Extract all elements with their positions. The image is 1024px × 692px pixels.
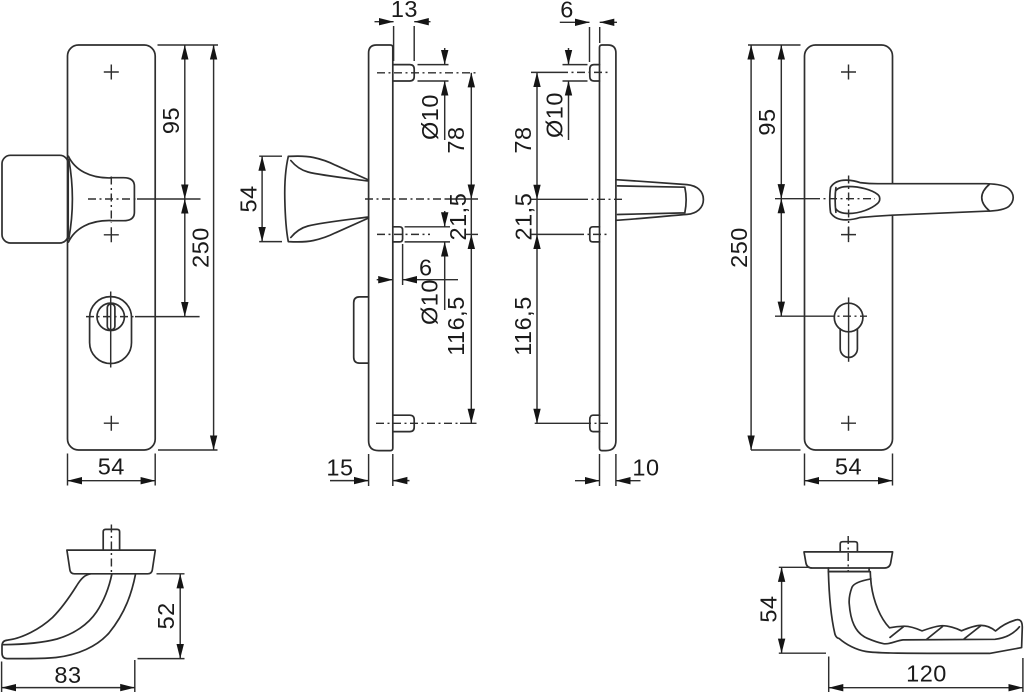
dimension 116,5 F2 (470, 234, 472, 423)
centerline bottom boss F2 (376, 422, 460, 424)
spindle boss middle F3 (590, 227, 600, 242)
svg-text:250: 250 (726, 227, 752, 268)
tick handle height F3 (531, 198, 581, 200)
svg-text:120: 120 (906, 661, 947, 687)
svg-text:6: 6 (560, 0, 574, 23)
extension lines boss diameter F2 (418, 65, 449, 81)
extension lines 6 F3 (590, 27, 600, 62)
lever centerline horizontal dash F4 (812, 198, 875, 200)
extension lines 54 F6 (779, 567, 826, 653)
knob neck top F1 (68, 156, 110, 178)
keyhole vertical centerline F4 (848, 297, 850, 361)
centerline middle boss F3 (576, 233, 609, 235)
cylinder cover side view F2 (354, 297, 369, 363)
knob neck bottom F1 (68, 220, 110, 242)
extension lines 120 F6 (829, 657, 1023, 692)
dimension knob-to-cylinder F1 (184, 199, 186, 317)
dimension 21,5 shaft F3 (536, 199, 538, 234)
dimension 250 F4 (750, 45, 752, 450)
lever crease F6 (849, 579, 1019, 644)
tick middle boss F3 (531, 233, 577, 235)
extension lines 13 F2 (394, 26, 415, 61)
svg-text:Ø10: Ø10 (417, 279, 443, 325)
dimension 13 arrows F2 (375, 21, 394, 23)
extension lines boss diameter F3 (563, 65, 588, 81)
spindle centerline F6 (847, 536, 849, 573)
keyhole horizontal centerline solid F4 (775, 315, 826, 317)
dimension arrows diameter F3 (568, 48, 570, 65)
svg-text:15: 15 (326, 455, 353, 481)
lever neck egg F4 (836, 187, 880, 214)
svg-text:21,5: 21,5 (511, 193, 537, 241)
lever collar F6 (828, 568, 869, 572)
knob grip F1 (2, 155, 68, 243)
spindle F6 (840, 542, 857, 552)
spindle F5 (103, 529, 119, 550)
keyhole circle F4 (834, 303, 863, 332)
svg-text:116,5: 116,5 (510, 296, 536, 356)
extension lines middle boss diameter F2 (405, 227, 450, 242)
dimension 54 F1 (68, 480, 156, 482)
svg-text:78: 78 (443, 126, 469, 153)
screw cross top F4 (841, 65, 856, 80)
dimension 95 F4 (780, 45, 782, 199)
svg-text:95: 95 (754, 108, 780, 135)
dimension 21,5 shaft F2 (470, 199, 472, 234)
cylinder slot F1 (107, 304, 115, 330)
dimension 6 arrows F3 (560, 21, 590, 23)
lever neck inner edge F4 (834, 188, 837, 213)
svg-text:54: 54 (756, 595, 782, 622)
centerline top boss F3 (531, 71, 560, 73)
screw boss bottom F2 (393, 415, 414, 431)
dimension 10 arrows F3 (575, 480, 600, 482)
lever centerline horizontal solid F4 (775, 198, 812, 200)
dimension 78 F3 (536, 72, 538, 199)
screw cross bottom F1 (104, 416, 119, 431)
knob face arc F1 (69, 160, 73, 239)
cylinder oval F1 (90, 297, 132, 364)
dimension 250 F1 (213, 45, 215, 450)
screw boss top F2 (393, 65, 414, 81)
cylinder vertical centerline F1 (110, 292, 112, 368)
dimension 6 arrows F2 (377, 279, 393, 281)
dimension 54 knob F2 (261, 156, 263, 241)
svg-text:78: 78 (510, 126, 536, 153)
cylinder circle F1 (97, 303, 124, 330)
svg-text:54: 54 (835, 454, 862, 480)
centerline handle F3 (580, 198, 623, 200)
knob centerline horizontal F1 (88, 198, 137, 200)
lever groove lines F6 (890, 626, 981, 639)
lever end inner arc F4 (982, 184, 990, 211)
svg-text:13: 13 (391, 0, 418, 22)
svg-text:Ø10: Ø10 (417, 94, 443, 140)
screw cross top F1 (104, 65, 119, 80)
svg-text:83: 83 (54, 662, 81, 688)
lever side outline F3 (616, 180, 703, 221)
lever side inner lines F3 (618, 186, 687, 215)
knob arm outline F5 (2, 574, 136, 659)
keyhole horizontal centerline dash F4 (826, 315, 867, 317)
dimension 52 F5 (179, 574, 181, 659)
extension lines 83 F5 (2, 660, 135, 692)
dimension arrows diameter top F2 (444, 48, 446, 65)
extension line top F4 (748, 44, 801, 46)
svg-text:21,5: 21,5 (445, 193, 471, 241)
extension lines knob height F2 (259, 156, 282, 241)
extension lines width F1 (68, 454, 156, 486)
spindle centerline F5 (110, 525, 112, 579)
centerline bottom boss F3 (535, 422, 583, 424)
backplate side F2 (369, 45, 393, 451)
knob arm crease F5 (4, 574, 112, 645)
backplate side F3 (600, 45, 616, 451)
dimension lever-to-keyhole F4 (780, 199, 782, 317)
screw cross bottom F4 (841, 416, 856, 431)
svg-text:116,5: 116,5 (443, 296, 469, 356)
extension line top F1 (158, 44, 219, 46)
screw cross middle F4 (841, 227, 856, 242)
centerline top boss F2 (377, 72, 477, 74)
extension lines plate depth F2 (369, 454, 393, 486)
svg-text:6: 6 (419, 255, 433, 281)
extension line bottom left F4 (751, 449, 801, 451)
screw boss bottom F3 (590, 415, 600, 431)
knob side outline F2 (285, 156, 369, 242)
lever base cap F6 (804, 552, 893, 568)
centerline middle boss F2 (377, 233, 430, 235)
svg-text:10: 10 (632, 455, 659, 481)
dimension 120 F6 (829, 687, 1023, 689)
svg-text:95: 95 (158, 107, 184, 134)
svg-text:52: 52 (153, 602, 179, 629)
knob centerline extension F1 (137, 198, 201, 200)
lever centerline vertical F4 (848, 176, 850, 239)
cylinder horizontal centerline F1 (86, 316, 135, 318)
screw cross middle F1 (104, 227, 119, 242)
tick handle height F2 (446, 198, 478, 200)
dimension 95 F1 (184, 45, 186, 199)
svg-text:54: 54 (98, 454, 125, 480)
dimension 54 F6 (781, 567, 783, 653)
extension lines 52 F5 (138, 574, 185, 659)
extension lines plate depth F3 (600, 454, 616, 486)
dimension 116,5 F3 (536, 234, 538, 423)
backplate F4 (805, 45, 893, 450)
extension line 6 F2 (402, 244, 404, 285)
lever front outline F4 (830, 180, 1013, 220)
dimension 78 F2 (470, 73, 472, 199)
svg-text:250: 250 (188, 227, 214, 268)
backplate F1 (68, 45, 156, 450)
extension line bottom right F1 (158, 449, 218, 451)
knob base cap F5 (67, 550, 155, 574)
svg-text:54: 54 (235, 185, 261, 212)
tick middle boss F2 (466, 233, 479, 235)
dimension 54 F4 (805, 480, 893, 482)
spindle boss middle F2 (393, 227, 403, 242)
dimension arrows diameter middle F2 (444, 211, 446, 227)
dimension 83 F5 (2, 687, 135, 689)
screw boss top F3 (590, 65, 600, 81)
dimension 15 arrows F2 (330, 480, 369, 482)
knob side inner curves F2 (291, 161, 368, 238)
cylinder centerline extension F1 (135, 316, 200, 318)
centerline handle height F2 (365, 198, 446, 200)
lever handle outline F6 (828, 572, 1022, 654)
keyhole slot F4 (840, 329, 857, 358)
extension lines width F4 (805, 454, 893, 486)
svg-text:Ø10: Ø10 (542, 92, 568, 138)
knob cap F1 (111, 178, 135, 221)
knob centerline vertical F1 (110, 177, 112, 223)
